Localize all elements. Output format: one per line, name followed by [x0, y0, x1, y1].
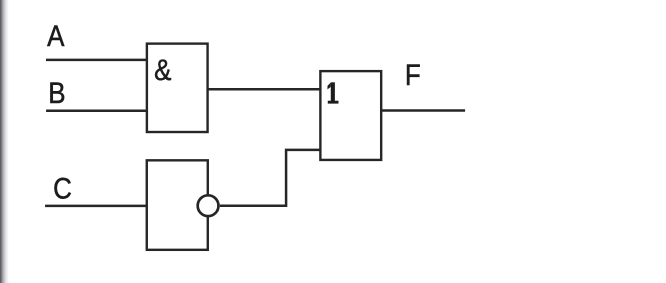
wire input A — [46, 59, 147, 62]
svg-text:&: & — [154, 53, 172, 86]
svg-text:B: B — [48, 77, 65, 110]
left panel shadow — [0, 0, 10, 283]
OR gate symbol 1 (drawn glyph with foot serif) — [327, 82, 338, 103]
wire input B — [46, 109, 147, 112]
svg-text:F: F — [405, 58, 421, 91]
wire input C — [45, 205, 147, 208]
NOT gate U2 body — [147, 160, 208, 250]
OR gate U3 body — [320, 71, 381, 160]
AND gate U1 body — [147, 44, 208, 132]
wire AND output to OR input — [207, 88, 321, 91]
wire output F — [380, 109, 465, 112]
svg-text:C: C — [53, 172, 72, 205]
NOT gate inversion bubble — [198, 195, 219, 216]
svg-text:A: A — [47, 19, 65, 52]
wire NOT output to OR input (right, up, right) — [220, 150, 321, 206]
